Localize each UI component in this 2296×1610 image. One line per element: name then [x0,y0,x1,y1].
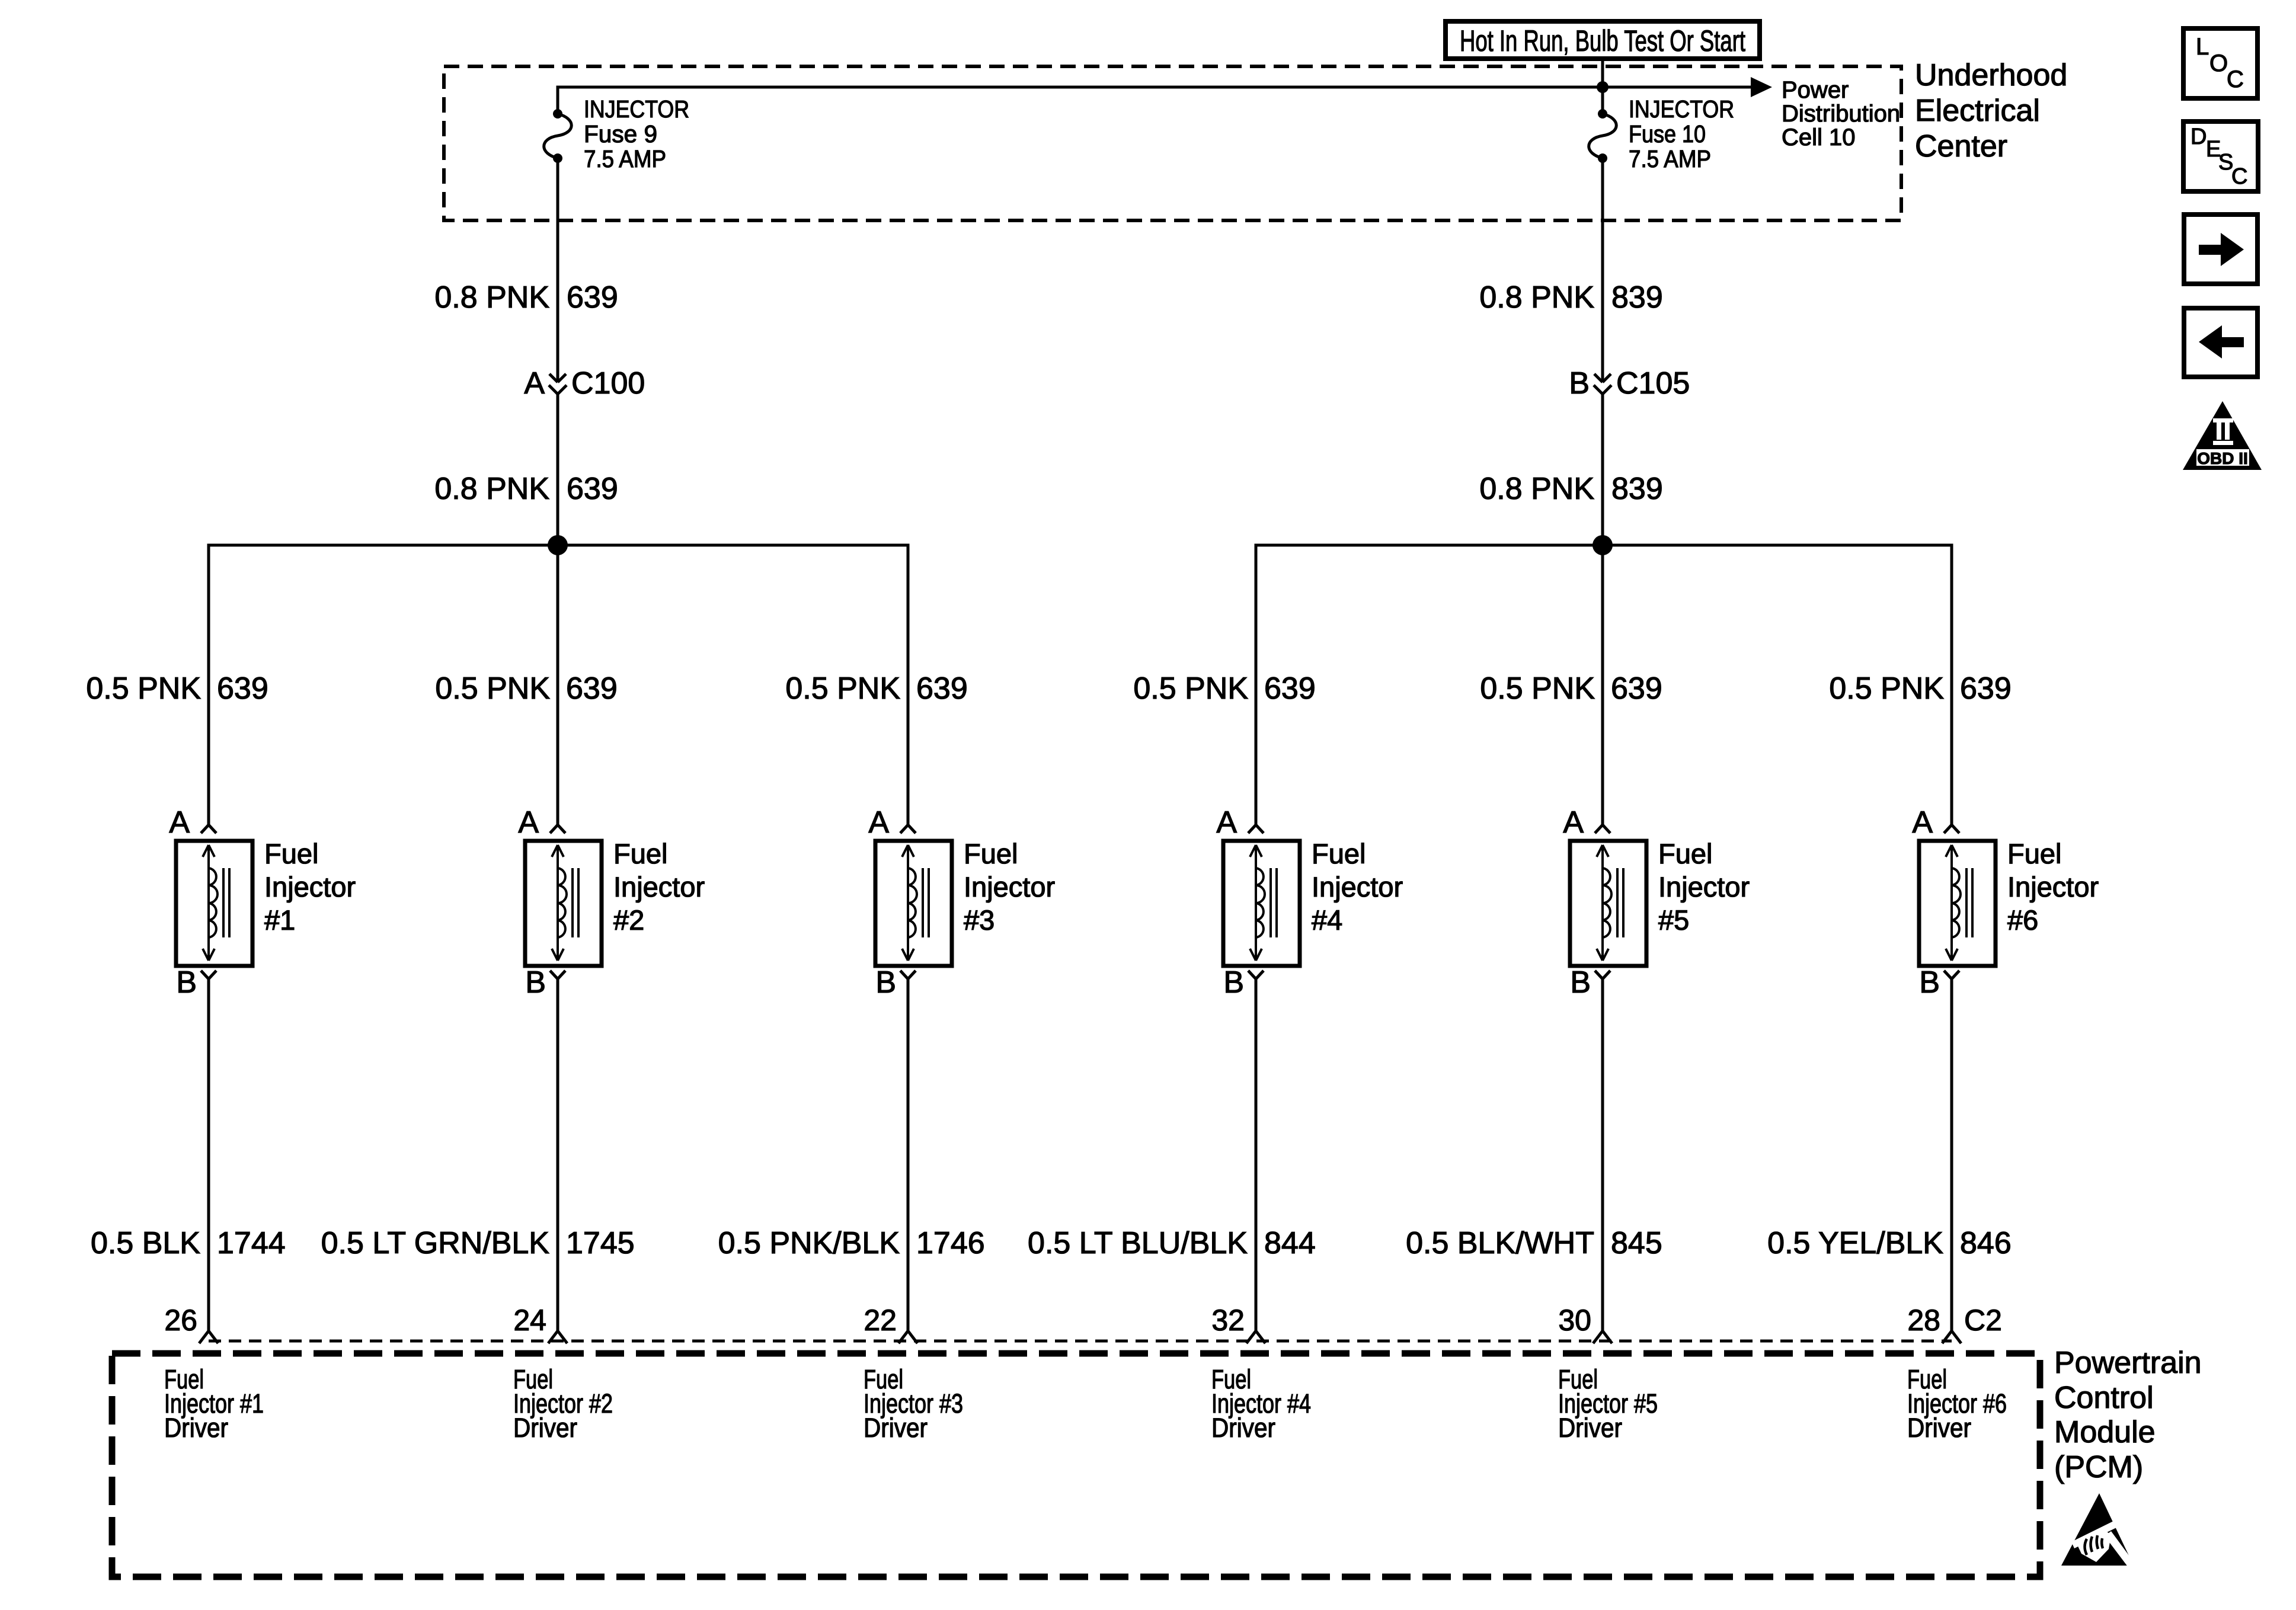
svg-text:Driver: Driver [164,1413,228,1443]
svg-text:846: 846 [1960,1226,2012,1260]
svg-text:C: C [2227,66,2244,92]
svg-text:0.5 PNK/BLK: 0.5 PNK/BLK [718,1226,900,1260]
svg-text:0.5 BLK/WHT: 0.5 BLK/WHT [1406,1226,1594,1260]
svg-text:A: A [169,805,190,840]
svg-text:A: A [868,805,889,840]
svg-text:Fuse 10: Fuse 10 [1629,120,1706,148]
svg-text:24: 24 [513,1304,546,1337]
svg-text:639: 639 [1611,671,1662,706]
svg-text:A: A [524,366,545,401]
svg-text:639: 639 [1264,671,1316,706]
svg-text:D: D [2191,124,2207,149]
svg-text:30: 30 [1558,1304,1591,1337]
svg-text:#3: #3 [964,904,994,936]
svg-text:Center: Center [1915,129,2007,164]
svg-text:Underhood: Underhood [1915,58,2067,92]
svg-text:Power: Power [1782,77,1849,103]
svg-text:0.5 PNK: 0.5 PNK [785,671,900,706]
svg-text:0.8 PNK: 0.8 PNK [434,280,549,315]
svg-text:A: A [1216,805,1237,840]
svg-text:0.5 YEL/BLK: 0.5 YEL/BLK [1767,1226,1943,1260]
svg-text:1745: 1745 [566,1226,635,1260]
svg-text:Driver: Driver [513,1413,577,1443]
svg-text:B: B [1223,965,1244,1000]
svg-text:OBD II: OBD II [2197,449,2248,468]
svg-text:O: O [2209,50,2228,76]
svg-text:B: B [1919,965,1940,1000]
svg-text:Fuel: Fuel [2007,838,2061,869]
svg-text:C: C [2231,164,2247,189]
svg-text:Cell 10: Cell 10 [1782,124,1856,151]
svg-text:L: L [2196,34,2209,60]
svg-text:845: 845 [1611,1226,1662,1260]
svg-text:0.5 PNK: 0.5 PNK [86,671,201,706]
svg-text:#2: #2 [613,904,644,936]
svg-text:22: 22 [864,1304,897,1337]
svg-text:(PCM): (PCM) [2054,1450,2143,1484]
svg-text:B: B [176,965,197,1000]
svg-text:C105: C105 [1616,366,1690,401]
svg-text:Driver: Driver [864,1413,928,1443]
svg-text:0.8 PNK: 0.8 PNK [434,472,549,506]
svg-text:7.5 AMP: 7.5 AMP [1629,145,1711,172]
svg-text:B: B [525,965,546,1000]
svg-text:1744: 1744 [217,1226,286,1260]
svg-text:Module: Module [2054,1415,2156,1449]
svg-text:INJECTOR: INJECTOR [584,95,689,123]
svg-text:Injector: Injector [964,871,1055,902]
svg-text:0.5 PNK: 0.5 PNK [1133,671,1248,706]
svg-text:0.8 PNK: 0.8 PNK [1479,280,1594,315]
svg-text:639: 639 [567,280,618,315]
svg-text:#5: #5 [1658,904,1689,936]
svg-text:Control: Control [2054,1381,2154,1415]
svg-text:1746: 1746 [916,1226,985,1260]
svg-text:839: 839 [1611,280,1663,315]
svg-text:0.5 LT BLU/BLK: 0.5 LT BLU/BLK [1028,1226,1248,1260]
svg-text:26: 26 [164,1304,197,1337]
svg-text:7.5 AMP: 7.5 AMP [584,145,666,172]
svg-text:0.5 PNK: 0.5 PNK [1829,671,1944,706]
svg-text:Fuel: Fuel [964,838,1018,869]
svg-text:Injector: Injector [2007,871,2099,902]
svg-text:#1: #1 [264,904,295,936]
svg-text:Fuse 9: Fuse 9 [584,120,657,148]
svg-text:A: A [1563,805,1584,840]
svg-text:B: B [1569,366,1590,401]
svg-text:639: 639 [567,472,618,506]
svg-text:C2: C2 [1964,1304,2002,1337]
svg-text:INJECTOR: INJECTOR [1629,95,1734,123]
svg-text:Fuel: Fuel [613,838,667,869]
svg-text:639: 639 [916,671,968,706]
svg-text:Injector: Injector [613,871,705,902]
svg-text:0.5 LT GRN/BLK: 0.5 LT GRN/BLK [321,1226,550,1260]
svg-text:0.5 PNK: 0.5 PNK [1480,671,1595,706]
svg-text:Powertrain: Powertrain [2054,1346,2202,1380]
svg-text:Injector: Injector [1658,871,1750,902]
svg-text:A: A [1912,805,1933,840]
svg-text:Distribution: Distribution [1782,101,1900,127]
svg-text:0.5 PNK: 0.5 PNK [435,671,550,706]
svg-text:Driver: Driver [1558,1413,1622,1443]
svg-text:Injector: Injector [1312,871,1403,902]
svg-text:Fuel: Fuel [1312,838,1366,869]
svg-text:A: A [518,805,539,840]
svg-text:#4: #4 [1312,904,1342,936]
svg-text:32: 32 [1211,1304,1245,1337]
svg-text:28: 28 [1907,1304,1940,1337]
svg-text:#6: #6 [2007,904,2038,936]
svg-text:0.5 BLK: 0.5 BLK [91,1226,200,1260]
svg-text:639: 639 [217,671,268,706]
svg-text:Electrical: Electrical [1915,94,2040,128]
svg-text:Fuel: Fuel [264,838,318,869]
svg-text:639: 639 [566,671,618,706]
svg-text:839: 839 [1611,472,1663,506]
svg-text:0.8 PNK: 0.8 PNK [1479,472,1594,506]
svg-text:Injector: Injector [264,871,356,902]
svg-text:B: B [1570,965,1591,1000]
svg-text:C100: C100 [571,366,645,401]
svg-text:639: 639 [1960,671,2012,706]
svg-text:Driver: Driver [1907,1413,1971,1443]
svg-text:Fuel: Fuel [1658,838,1712,869]
svg-text:Driver: Driver [1211,1413,1275,1443]
svg-text:844: 844 [1264,1226,1316,1260]
svg-text:B: B [875,965,896,1000]
svg-text:Hot In Run, Bulb Test Or Start: Hot In Run, Bulb Test Or Start [1460,24,1745,57]
